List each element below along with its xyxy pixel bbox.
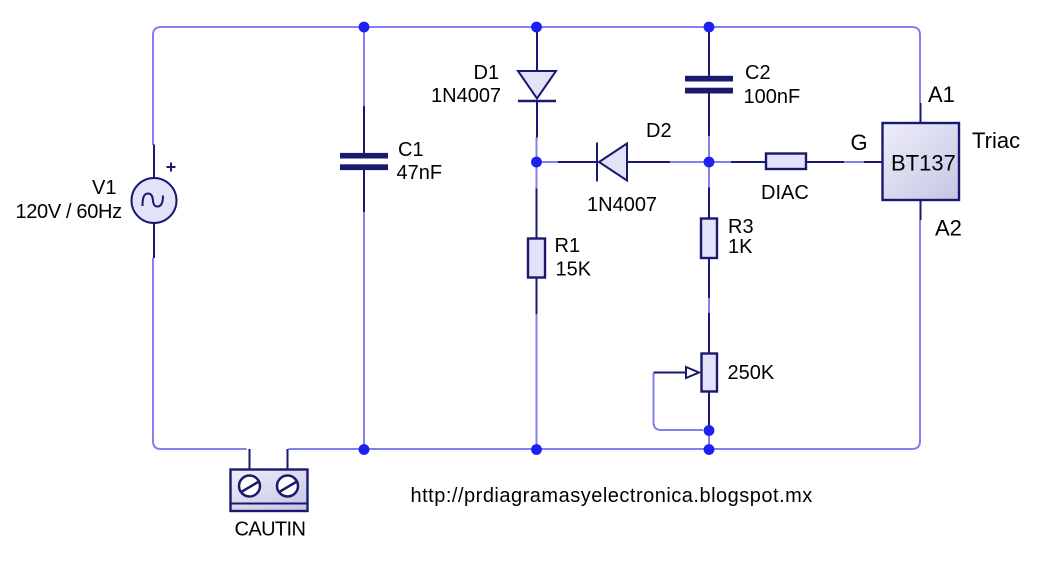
wire R1 bottom [536,314,538,449]
wire left lower and bottom-left [153,258,247,449]
svg-text:C2: C2 [745,62,771,84]
svg-text:A2: A2 [935,216,962,241]
svg-text:G: G [851,130,868,155]
terminal block CAUTIN [231,449,308,511]
wire R3 to pot [708,298,710,314]
potentiometer 250K [654,313,718,430]
wire top frame [153,27,920,145]
capacitor C2 [685,27,733,136]
node dot bottom C1 [359,444,370,455]
node dot pot bottom [704,425,715,436]
node dot bottom R1 [531,444,542,455]
wire node to D2 [537,161,559,163]
wire D2 to node [670,161,709,163]
triac U1 BT137 [864,103,959,220]
svg-text:1K: 1K [728,236,753,258]
wire pot bottom [708,430,710,449]
wire C1 top [363,27,365,107]
resistor R1 [528,189,545,315]
svg-text:V1: V1 [92,177,116,199]
svg-text:1N4007: 1N4007 [587,194,657,216]
svg-text:A1: A1 [928,82,955,107]
wire DIAC to gate [844,161,864,163]
node dot top D1 [531,22,542,33]
svg-text:http://prdiagramasyelectronica: http://prdiagramasyelectronica.blogspot.… [411,485,813,507]
wire pot wiper feedback [654,373,704,430]
wire C1 bottom [363,212,365,450]
node dot top C1 [359,22,370,33]
node dot D2 row right [704,157,715,168]
svg-text:Triac: Triac [972,128,1020,153]
capacitor C1 [340,106,388,212]
wire D1 to node [536,138,538,189]
DIAC [731,154,844,170]
svg-text:15K: 15K [556,259,592,281]
diode D1 [518,27,556,138]
svg-text:47nF: 47nF [397,162,443,184]
wire C2 to node [708,136,710,188]
svg-text:120V / 60Hz: 120V / 60Hz [16,201,122,223]
svg-text:BT137: BT137 [891,151,956,176]
wire node to DIAC [709,161,731,163]
node dot top C2 [704,22,715,33]
svg-text:R3: R3 [728,216,754,238]
resistor R3 [701,188,717,299]
svg-text:100nF: 100nF [744,86,801,108]
diode D2 [558,143,670,182]
svg-text:250K: 250K [728,362,775,384]
svg-text:1N4007: 1N4007 [431,85,501,107]
wire right lower and bottom-right [289,220,921,449]
svg-text:R1: R1 [555,235,581,257]
svg-text:C1: C1 [398,139,424,161]
svg-text:DIAC: DIAC [761,182,809,204]
svg-text:D2: D2 [646,120,672,142]
svg-text:D1: D1 [474,62,500,84]
node dot D2 row left [531,157,542,168]
node dot bottom pot [704,444,715,455]
svg-text:CAUTIN: CAUTIN [235,519,306,541]
source V1 [132,145,177,259]
